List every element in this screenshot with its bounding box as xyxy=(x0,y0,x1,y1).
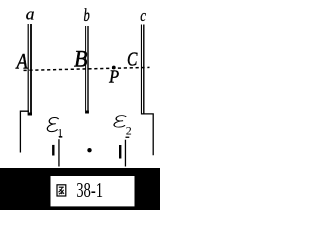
battery 2 top tick xyxy=(126,137,130,138)
caption CJK glyph (figure) drawn xyxy=(57,185,66,196)
wire from plate a xyxy=(20,111,29,152)
battery 2 long thin plate xyxy=(125,140,126,167)
wire from plate c xyxy=(141,114,153,155)
EMF source label E2 (script E) xyxy=(114,116,132,138)
svg-text:b: b xyxy=(84,6,91,25)
junction dot between batteries xyxy=(87,148,91,152)
battery 1 short thick plate xyxy=(52,145,54,156)
svg-text:c: c xyxy=(140,6,146,25)
plate b (double line electrode) xyxy=(85,26,89,114)
svg-text:2: 2 xyxy=(126,124,132,138)
plate c (double line electrode) xyxy=(141,25,145,115)
svg-text:a: a xyxy=(26,5,35,24)
EMF source label E1 (script E) xyxy=(47,117,63,139)
battery 1 top tick xyxy=(59,136,62,137)
dashed line through A B C xyxy=(24,67,150,70)
svg-text:1: 1 xyxy=(57,128,63,140)
svg-text:B: B xyxy=(74,46,88,72)
white caption box xyxy=(51,176,135,206)
battery 1 long thin plate xyxy=(58,139,59,166)
point P dot xyxy=(112,66,116,70)
svg-text:C: C xyxy=(127,48,138,70)
black band at bottom xyxy=(0,168,160,210)
svg-text:38-1: 38-1 xyxy=(76,178,103,201)
battery 2 short thick plate xyxy=(119,145,121,159)
svg-text:P: P xyxy=(108,67,119,87)
plate a (double line electrode) xyxy=(28,24,32,116)
